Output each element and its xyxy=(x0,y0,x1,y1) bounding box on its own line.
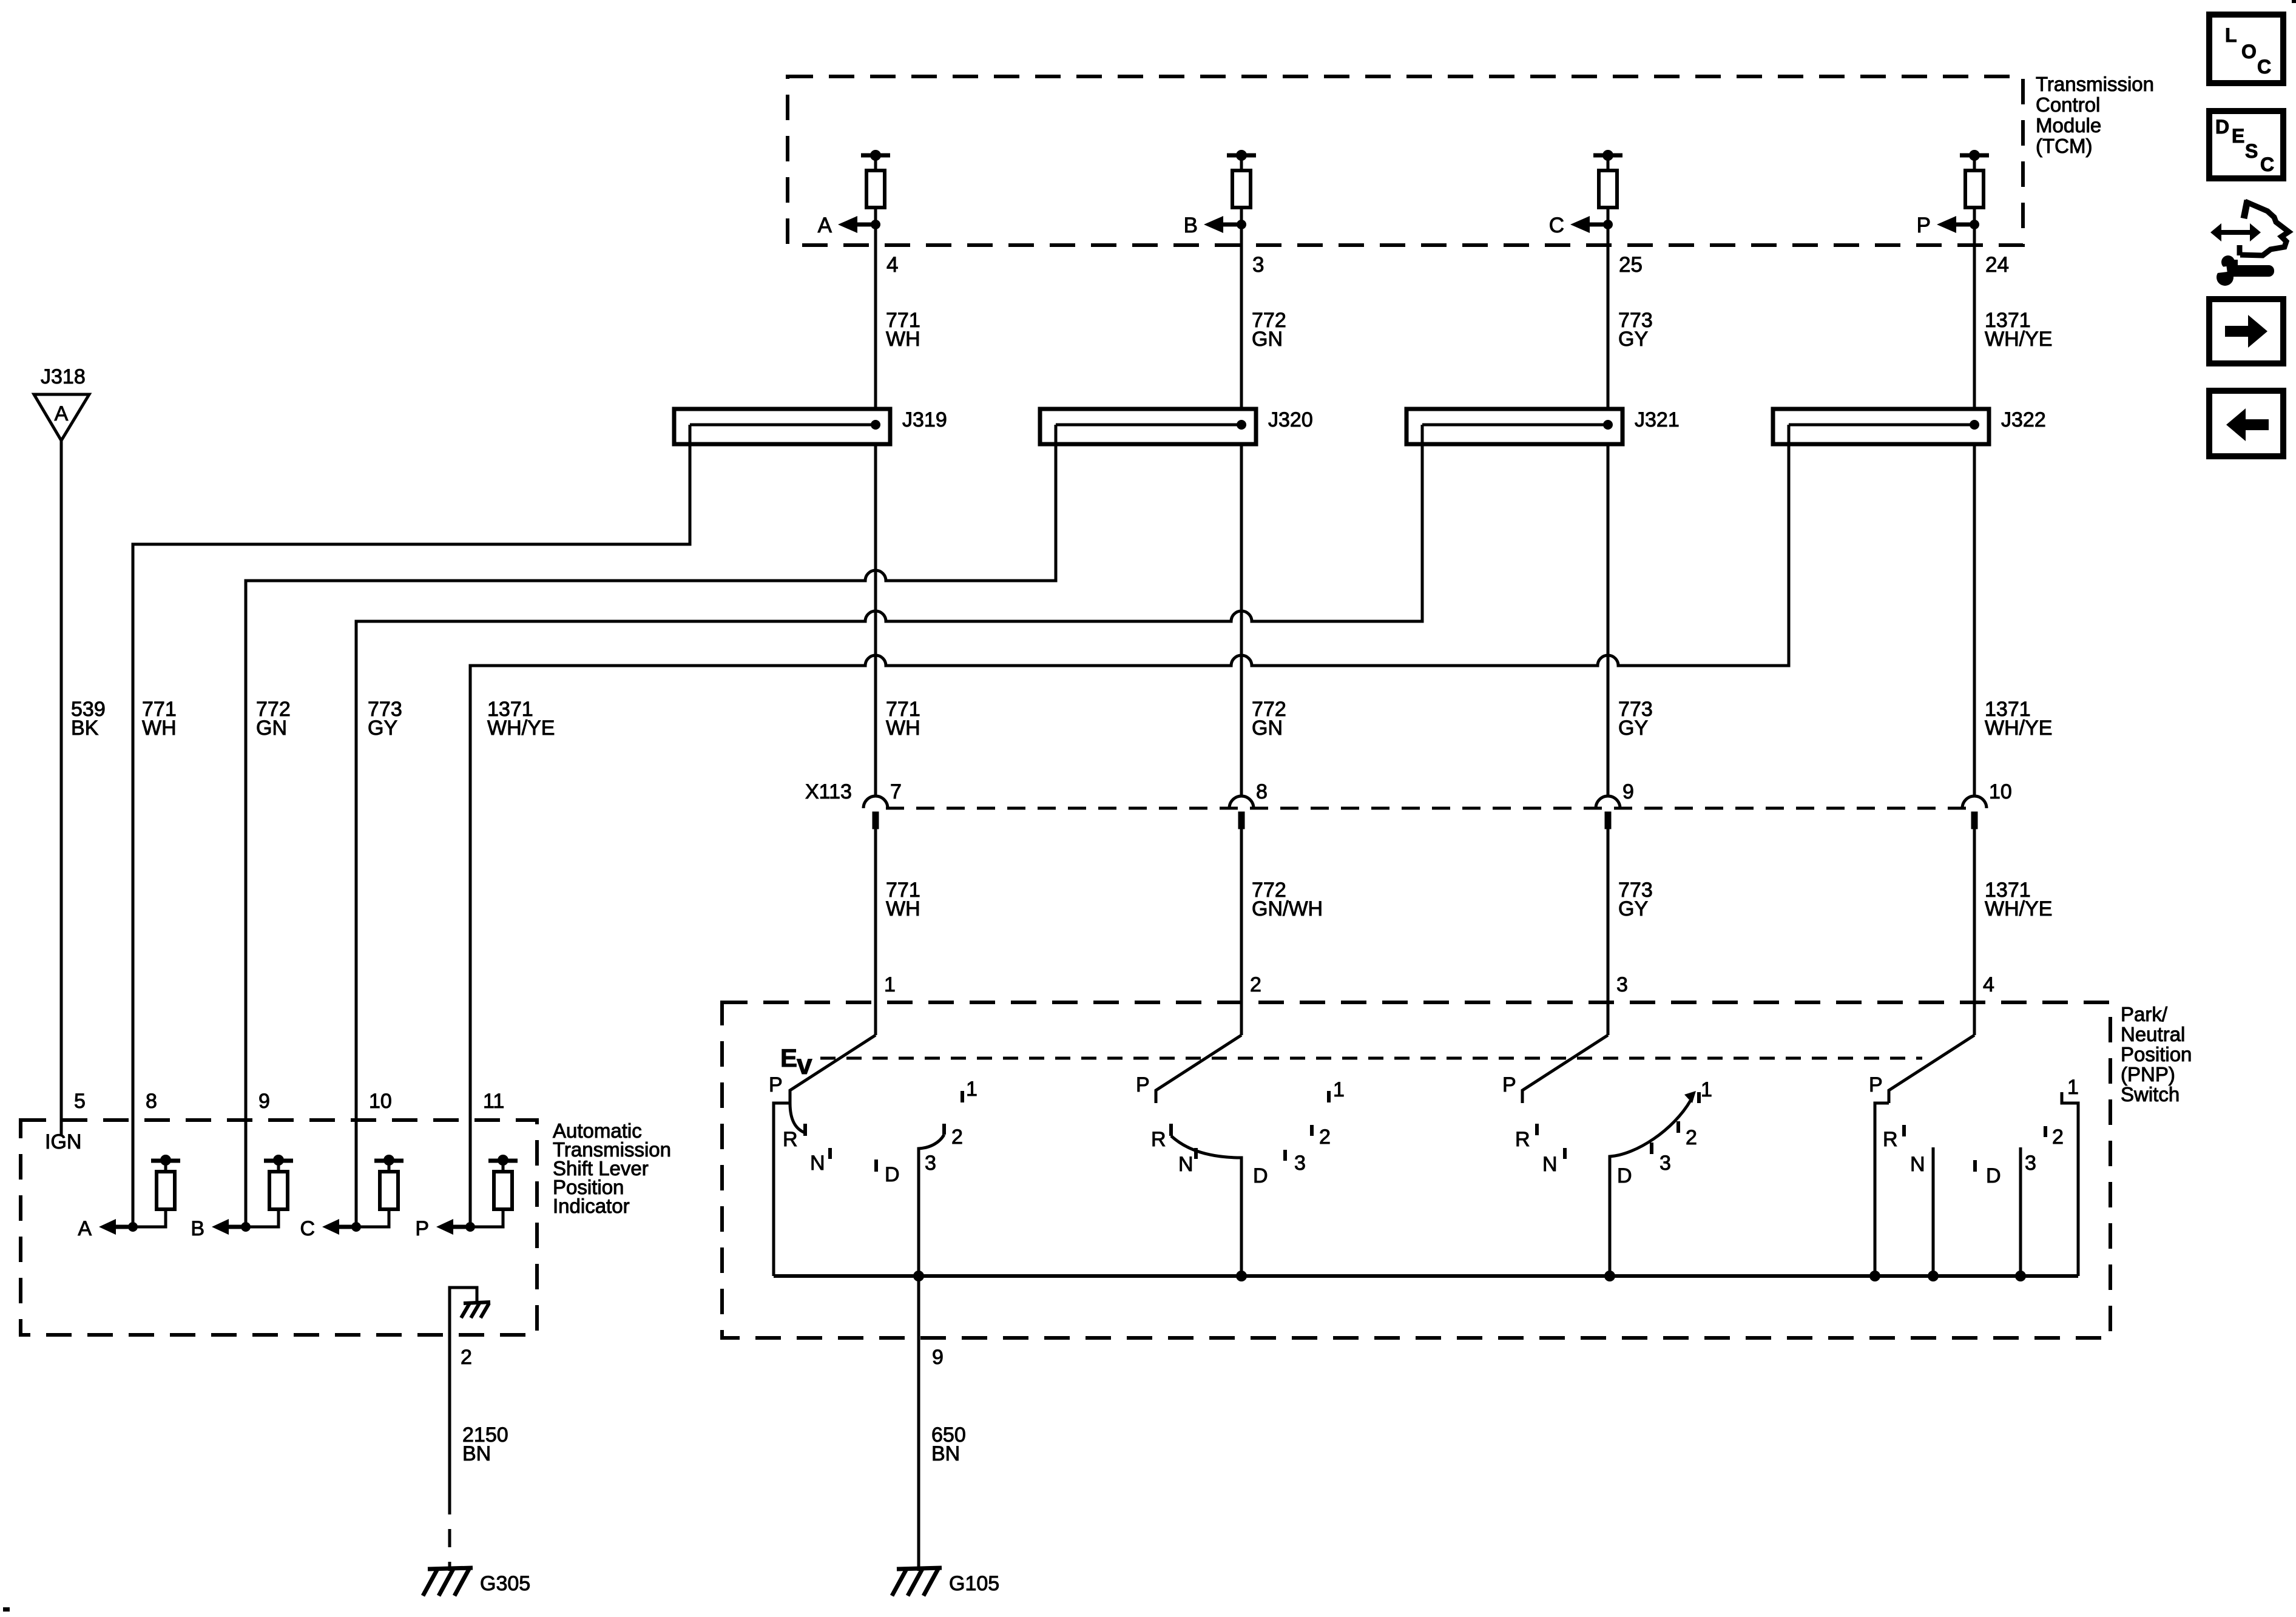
TCM enclosure (dashed box) xyxy=(788,76,2023,245)
svg-text:5: 5 xyxy=(74,1090,86,1113)
icon: adjust/repair (hand with double arrow and wrench) xyxy=(2207,200,2289,286)
svg-text:C: C xyxy=(1549,214,1564,237)
connector X113 (dashed connector line) xyxy=(886,807,1974,810)
svg-text:8: 8 xyxy=(146,1090,157,1113)
contact 1 (section 4) riser to bus xyxy=(2062,1076,2079,1276)
wire branch from J321 down/left to indicator xyxy=(356,425,1422,1227)
wire 1371 WH/YE from X113 to PNP pin 4 xyxy=(1973,829,1976,1035)
svg-text:1: 1 xyxy=(2067,1076,2079,1099)
svg-text:D: D xyxy=(1253,1164,1268,1187)
svg-text:3: 3 xyxy=(1252,253,1264,277)
splice J320 xyxy=(1040,409,1256,444)
label 773 GY (X113 to PNP segment) xyxy=(1618,879,1653,920)
svg-text:3: 3 xyxy=(1616,973,1628,996)
label 1371 WH/YE (X113 to PNP segment) xyxy=(1985,879,2052,920)
wire 772 GN/WH from X113 to PNP pin 2 xyxy=(1240,829,1243,1035)
PNP section 2 wiper arm (R to D) with riser to bus xyxy=(1171,1136,1241,1276)
icon: forward arrow box xyxy=(2209,299,2283,363)
svg-text:2: 2 xyxy=(1319,1126,1331,1149)
svg-text:P: P xyxy=(1136,1073,1150,1096)
connector X113 terminal pin 7 xyxy=(863,796,888,829)
PNP section 1 wire from P contact to common bus xyxy=(774,1103,790,1276)
svg-text:A: A xyxy=(818,214,832,237)
PNP section 3 wiper arm (D toward 1, arrow) with riser to bus xyxy=(1610,1091,1696,1276)
svg-text:BN: BN xyxy=(931,1442,960,1465)
svg-text:4: 4 xyxy=(886,253,898,277)
contact N (section 1) xyxy=(828,1148,832,1159)
label 771 WH (left column) xyxy=(142,698,177,740)
label 539 BK (left column) xyxy=(71,698,106,740)
PNP switch section 3: input lead from pin 3 to contact P xyxy=(1522,1035,1608,1103)
svg-text:9: 9 xyxy=(932,1346,944,1369)
svg-text:A: A xyxy=(55,402,69,425)
contact N (section 3) xyxy=(1563,1148,1567,1159)
label 2150 BN xyxy=(462,1423,508,1465)
svg-text:9: 9 xyxy=(258,1090,270,1113)
svg-text:4: 4 xyxy=(1983,973,1994,996)
svg-text:D: D xyxy=(885,1163,900,1186)
svg-text:7: 7 xyxy=(890,780,902,803)
splice J319 xyxy=(674,409,890,444)
node B (TCM output arrow) xyxy=(1184,214,1246,237)
svg-text:P: P xyxy=(1917,214,1931,237)
svg-text:WH/YE: WH/YE xyxy=(1985,897,2052,920)
connector X113 terminal pin 9 xyxy=(1596,796,1620,829)
contact D (section 4) xyxy=(1973,1160,1977,1172)
connector X113 terminal pin 8 xyxy=(1229,796,1254,829)
svg-text:GY: GY xyxy=(1618,328,1648,351)
contact 2 (section 2) xyxy=(1310,1125,1314,1136)
splice J322 xyxy=(1773,409,1989,444)
node P (TCM output arrow) xyxy=(1917,214,1979,237)
wire 772 GN from TCM pin 3 down to X113 pin 8 xyxy=(1240,224,1243,796)
label 771 WH (splice to X113 segment) xyxy=(886,698,920,740)
svg-text:WH: WH xyxy=(886,897,920,920)
wire 2150 BN dashed segment to G305 xyxy=(448,1496,451,1571)
svg-text:Module: Module xyxy=(2036,114,2101,137)
svg-text:C: C xyxy=(2257,56,2271,78)
svg-text:2: 2 xyxy=(461,1346,472,1369)
svg-text:1: 1 xyxy=(884,973,896,996)
wire branch from J319 down/left to indicator xyxy=(133,425,690,1227)
junction: section 4 contact-3 riser to bus xyxy=(2015,1271,2026,1281)
contact 2 (section 1) xyxy=(942,1124,946,1135)
node A (indicator arrow) xyxy=(78,1217,138,1240)
junction: section 2 riser to bus xyxy=(1236,1271,1247,1281)
contact R (section 3) xyxy=(1535,1124,1539,1135)
svg-text:BK: BK xyxy=(71,717,99,740)
svg-text:Neutral: Neutral xyxy=(2121,1023,2185,1045)
svg-text:3: 3 xyxy=(925,1152,936,1175)
PNP section 1 wiper arm (P to R) xyxy=(790,1103,805,1133)
node P (indicator arrow) xyxy=(415,1217,475,1240)
wire branch from J322 down/left to indicator xyxy=(470,425,1789,1227)
svg-text:D: D xyxy=(2215,116,2229,138)
contact 1 (section 3) xyxy=(1697,1092,1701,1103)
svg-text:Park/: Park/ xyxy=(2121,1003,2168,1025)
PNP switch section 1: input lead from pin 1 to contact P xyxy=(790,1035,876,1103)
svg-text:11: 11 xyxy=(483,1090,504,1113)
label 771 WH (TCM to splice segment) xyxy=(886,309,920,351)
svg-text:N: N xyxy=(1178,1153,1194,1176)
svg-text:J320: J320 xyxy=(1268,408,1313,431)
svg-text:Transmission: Transmission xyxy=(2036,73,2154,95)
contact N (section 4) riser to bus xyxy=(1910,1147,1933,1276)
svg-text:GY: GY xyxy=(1618,897,1648,920)
label 773 GY (splice to X113 segment) xyxy=(1618,698,1653,740)
contact R (section 4) xyxy=(1902,1125,1906,1136)
svg-text:25: 25 xyxy=(1619,253,1643,277)
PNP switch section 4: input lead from pin 4 to contact P xyxy=(1889,1035,1974,1103)
contact 3 (section 1) with riser to bus xyxy=(919,1135,944,1276)
label 772 GN (left column) xyxy=(256,698,291,740)
node A (TCM output arrow) xyxy=(818,214,880,237)
PNP section 4 wire from P contact to common bus xyxy=(1875,1103,1889,1276)
svg-text:D: D xyxy=(1617,1164,1632,1187)
indicator internal chassis ground xyxy=(450,1288,490,1496)
svg-text:J322: J322 xyxy=(2001,408,2046,431)
icon: DESC box xyxy=(2209,111,2283,178)
svg-text:3: 3 xyxy=(1294,1152,1306,1175)
svg-text:2: 2 xyxy=(1686,1126,1697,1149)
svg-text:10: 10 xyxy=(1989,780,2012,803)
PNP switch actuator linkage (dashed) with E-v mark xyxy=(780,1044,1922,1080)
svg-text:E: E xyxy=(2232,125,2244,147)
svg-text:N: N xyxy=(1542,1153,1558,1176)
svg-text:WH: WH xyxy=(886,328,920,351)
label 650 BN xyxy=(931,1423,966,1465)
svg-text:R: R xyxy=(1883,1128,1898,1151)
contact 2 (section 4) xyxy=(2044,1126,2047,1137)
svg-text:S: S xyxy=(2245,140,2258,162)
svg-text:WH: WH xyxy=(142,717,177,740)
label 1371 WH/YE (TCM to splice segment) xyxy=(1985,309,2052,351)
connector X113 terminal pin 10 xyxy=(1962,796,1987,829)
PNP switch enclosure (dashed box) xyxy=(722,1002,2110,1338)
svg-text:GN: GN xyxy=(1252,328,1283,351)
svg-text:R: R xyxy=(1515,1128,1530,1151)
svg-text:IGN: IGN xyxy=(45,1130,81,1153)
svg-text:3: 3 xyxy=(2025,1152,2036,1175)
contact D (section 1) xyxy=(874,1160,878,1172)
svg-text:24: 24 xyxy=(1985,253,2009,277)
svg-text:D: D xyxy=(1986,1164,2001,1187)
svg-text:J321: J321 xyxy=(1635,408,1680,431)
contact 3 (section 2) xyxy=(1283,1150,1287,1161)
indicator lamp resistor C xyxy=(356,1155,403,1227)
svg-text:N: N xyxy=(810,1152,825,1175)
ground G105 xyxy=(892,1568,942,1596)
svg-text:9: 9 xyxy=(1622,780,1634,803)
junction: section 4 N riser to bus xyxy=(1928,1271,1939,1281)
svg-text:L: L xyxy=(2225,24,2237,46)
contact 1 (section 2) xyxy=(1327,1091,1331,1102)
resistor TCM driver C xyxy=(1593,150,1622,224)
wire 1371 WH/YE from TCM pin 24 down to X113 pin 10 xyxy=(1973,224,1976,796)
svg-text:P: P xyxy=(769,1073,783,1096)
node B (indicator arrow) xyxy=(191,1217,251,1240)
wire 773 GY from X113 to PNP pin 3 xyxy=(1607,829,1610,1035)
contact R (section 2) xyxy=(1169,1124,1173,1136)
svg-text:WH: WH xyxy=(886,717,920,740)
svg-text:G305: G305 xyxy=(480,1572,530,1595)
svg-text:GY: GY xyxy=(368,717,397,740)
svg-text:10: 10 xyxy=(369,1090,392,1113)
svg-text:N: N xyxy=(1910,1153,1925,1176)
PNP switch section 2: input lead from pin 2 to contact P xyxy=(1156,1035,1241,1103)
svg-text:(TCM): (TCM) xyxy=(2036,135,2092,157)
label: Park/Neutral Position (PNP) Switch xyxy=(2121,1003,2192,1106)
svg-text:C: C xyxy=(2260,154,2274,175)
svg-text:R: R xyxy=(1151,1128,1166,1151)
svg-text:P: P xyxy=(1869,1073,1883,1096)
svg-text:2: 2 xyxy=(1250,973,1261,996)
splice J321 xyxy=(1406,409,1622,444)
label: Transmission Control Module (TCM) xyxy=(2036,73,2154,157)
svg-text:WH/YE: WH/YE xyxy=(487,717,555,740)
svg-text:P: P xyxy=(415,1217,429,1240)
indicator enclosure (dashed box) xyxy=(21,1120,537,1335)
resistor TCM driver A xyxy=(861,150,890,224)
junction: section 4 P riser to bus xyxy=(1869,1271,1880,1281)
PNP common ground bus xyxy=(774,1274,2078,1278)
label 773 GY (left column) xyxy=(368,698,402,740)
contact 2 (section 3) xyxy=(1676,1121,1680,1133)
svg-text:Switch: Switch xyxy=(2121,1083,2180,1106)
label 1371 WH/YE (splice to X113 segment) xyxy=(1985,698,2052,740)
node C (indicator arrow) xyxy=(300,1217,361,1240)
svg-text:R: R xyxy=(783,1128,798,1151)
label: Automatic Transmission Shift Lever Position Indicator xyxy=(553,1119,671,1217)
svg-text:A: A xyxy=(78,1217,92,1240)
wire 650 BN from PNP pin 9 to ground G105 xyxy=(917,1276,920,1571)
svg-text:J318: J318 xyxy=(41,365,86,388)
svg-text:Control: Control xyxy=(2036,93,2100,116)
page artifact mark (bottom-left) xyxy=(3,1607,10,1612)
contact 3 (section 3) xyxy=(1650,1143,1653,1154)
svg-text:3: 3 xyxy=(1660,1152,1671,1175)
junction: section 1 riser to bus xyxy=(913,1271,924,1281)
label 772 GN (splice to X113 segment) xyxy=(1252,698,1286,740)
svg-text:Position: Position xyxy=(2121,1043,2192,1065)
svg-text:WH/YE: WH/YE xyxy=(1985,717,2052,740)
svg-text:E: E xyxy=(780,1044,797,1072)
svg-text:1: 1 xyxy=(1701,1078,1712,1101)
svg-text:(PNP): (PNP) xyxy=(2121,1063,2175,1085)
svg-text:O: O xyxy=(2241,41,2257,62)
svg-text:v: v xyxy=(797,1048,812,1080)
wire 771 WH from TCM pin 4 down to X113 pin 7 xyxy=(874,224,877,796)
svg-text:GY: GY xyxy=(1618,717,1648,740)
svg-text:G105: G105 xyxy=(949,1572,999,1595)
indicator lamp resistor P xyxy=(470,1155,518,1227)
svg-text:J319: J319 xyxy=(902,408,947,431)
contact 3 (section 4) riser to bus xyxy=(2021,1147,2036,1276)
label 773 GY (TCM to splice segment) xyxy=(1618,309,1653,351)
svg-text:GN: GN xyxy=(1252,717,1283,740)
svg-text:WH/YE: WH/YE xyxy=(1985,328,2052,351)
contact N (section 2) xyxy=(1194,1148,1198,1159)
svg-text:X113: X113 xyxy=(805,780,852,803)
contact R (section 1) xyxy=(803,1124,807,1136)
svg-text:BN: BN xyxy=(462,1442,491,1465)
svg-text:1: 1 xyxy=(966,1078,977,1101)
contact 1 (section 1) xyxy=(961,1091,964,1102)
svg-text:1: 1 xyxy=(1333,1078,1345,1101)
svg-text:P: P xyxy=(1502,1073,1516,1096)
indicator lamp resistor A xyxy=(133,1155,180,1227)
wire 539 BK from J318 to indicator pin 5 (IGN) xyxy=(60,441,63,1136)
svg-text:2: 2 xyxy=(951,1126,963,1149)
svg-text:B: B xyxy=(1184,214,1198,237)
icon: back arrow box xyxy=(2209,391,2283,456)
svg-text:GN: GN xyxy=(256,717,287,740)
svg-text:8: 8 xyxy=(1256,780,1268,803)
svg-text:GN/WH: GN/WH xyxy=(1252,897,1323,920)
label 772 GN (TCM to splice segment) xyxy=(1252,309,1286,351)
page artifact mark (top-right) xyxy=(2292,0,2296,3)
icon: LOC box xyxy=(2209,15,2283,83)
ground G305 xyxy=(423,1568,473,1596)
resistor TCM driver P xyxy=(1960,150,1989,224)
wire 771 WH from X113 to PNP pin 1 xyxy=(874,829,877,1035)
junction: section 3 riser to bus xyxy=(1604,1271,1615,1281)
label 772 GN/WH (X113 to PNP segment) xyxy=(1252,879,1323,920)
splice J318 (triangle symbol, cavity A) xyxy=(34,394,89,441)
label 771 WH (X113 to PNP segment) xyxy=(886,879,920,920)
wire branch from J320 down/left to indicator xyxy=(246,425,1056,1227)
svg-text:B: B xyxy=(191,1217,204,1240)
node C (TCM output arrow) xyxy=(1549,214,1613,237)
svg-text:C: C xyxy=(300,1217,315,1240)
indicator lamp resistor B xyxy=(246,1155,293,1227)
wire 773 GY from TCM pin 25 down to X113 pin 9 xyxy=(1607,224,1610,796)
svg-text:2: 2 xyxy=(2052,1126,2064,1149)
label 1371 WH/YE (left column) xyxy=(487,698,555,740)
resistor TCM driver B xyxy=(1227,150,1256,224)
svg-text:Indicator: Indicator xyxy=(553,1195,630,1217)
